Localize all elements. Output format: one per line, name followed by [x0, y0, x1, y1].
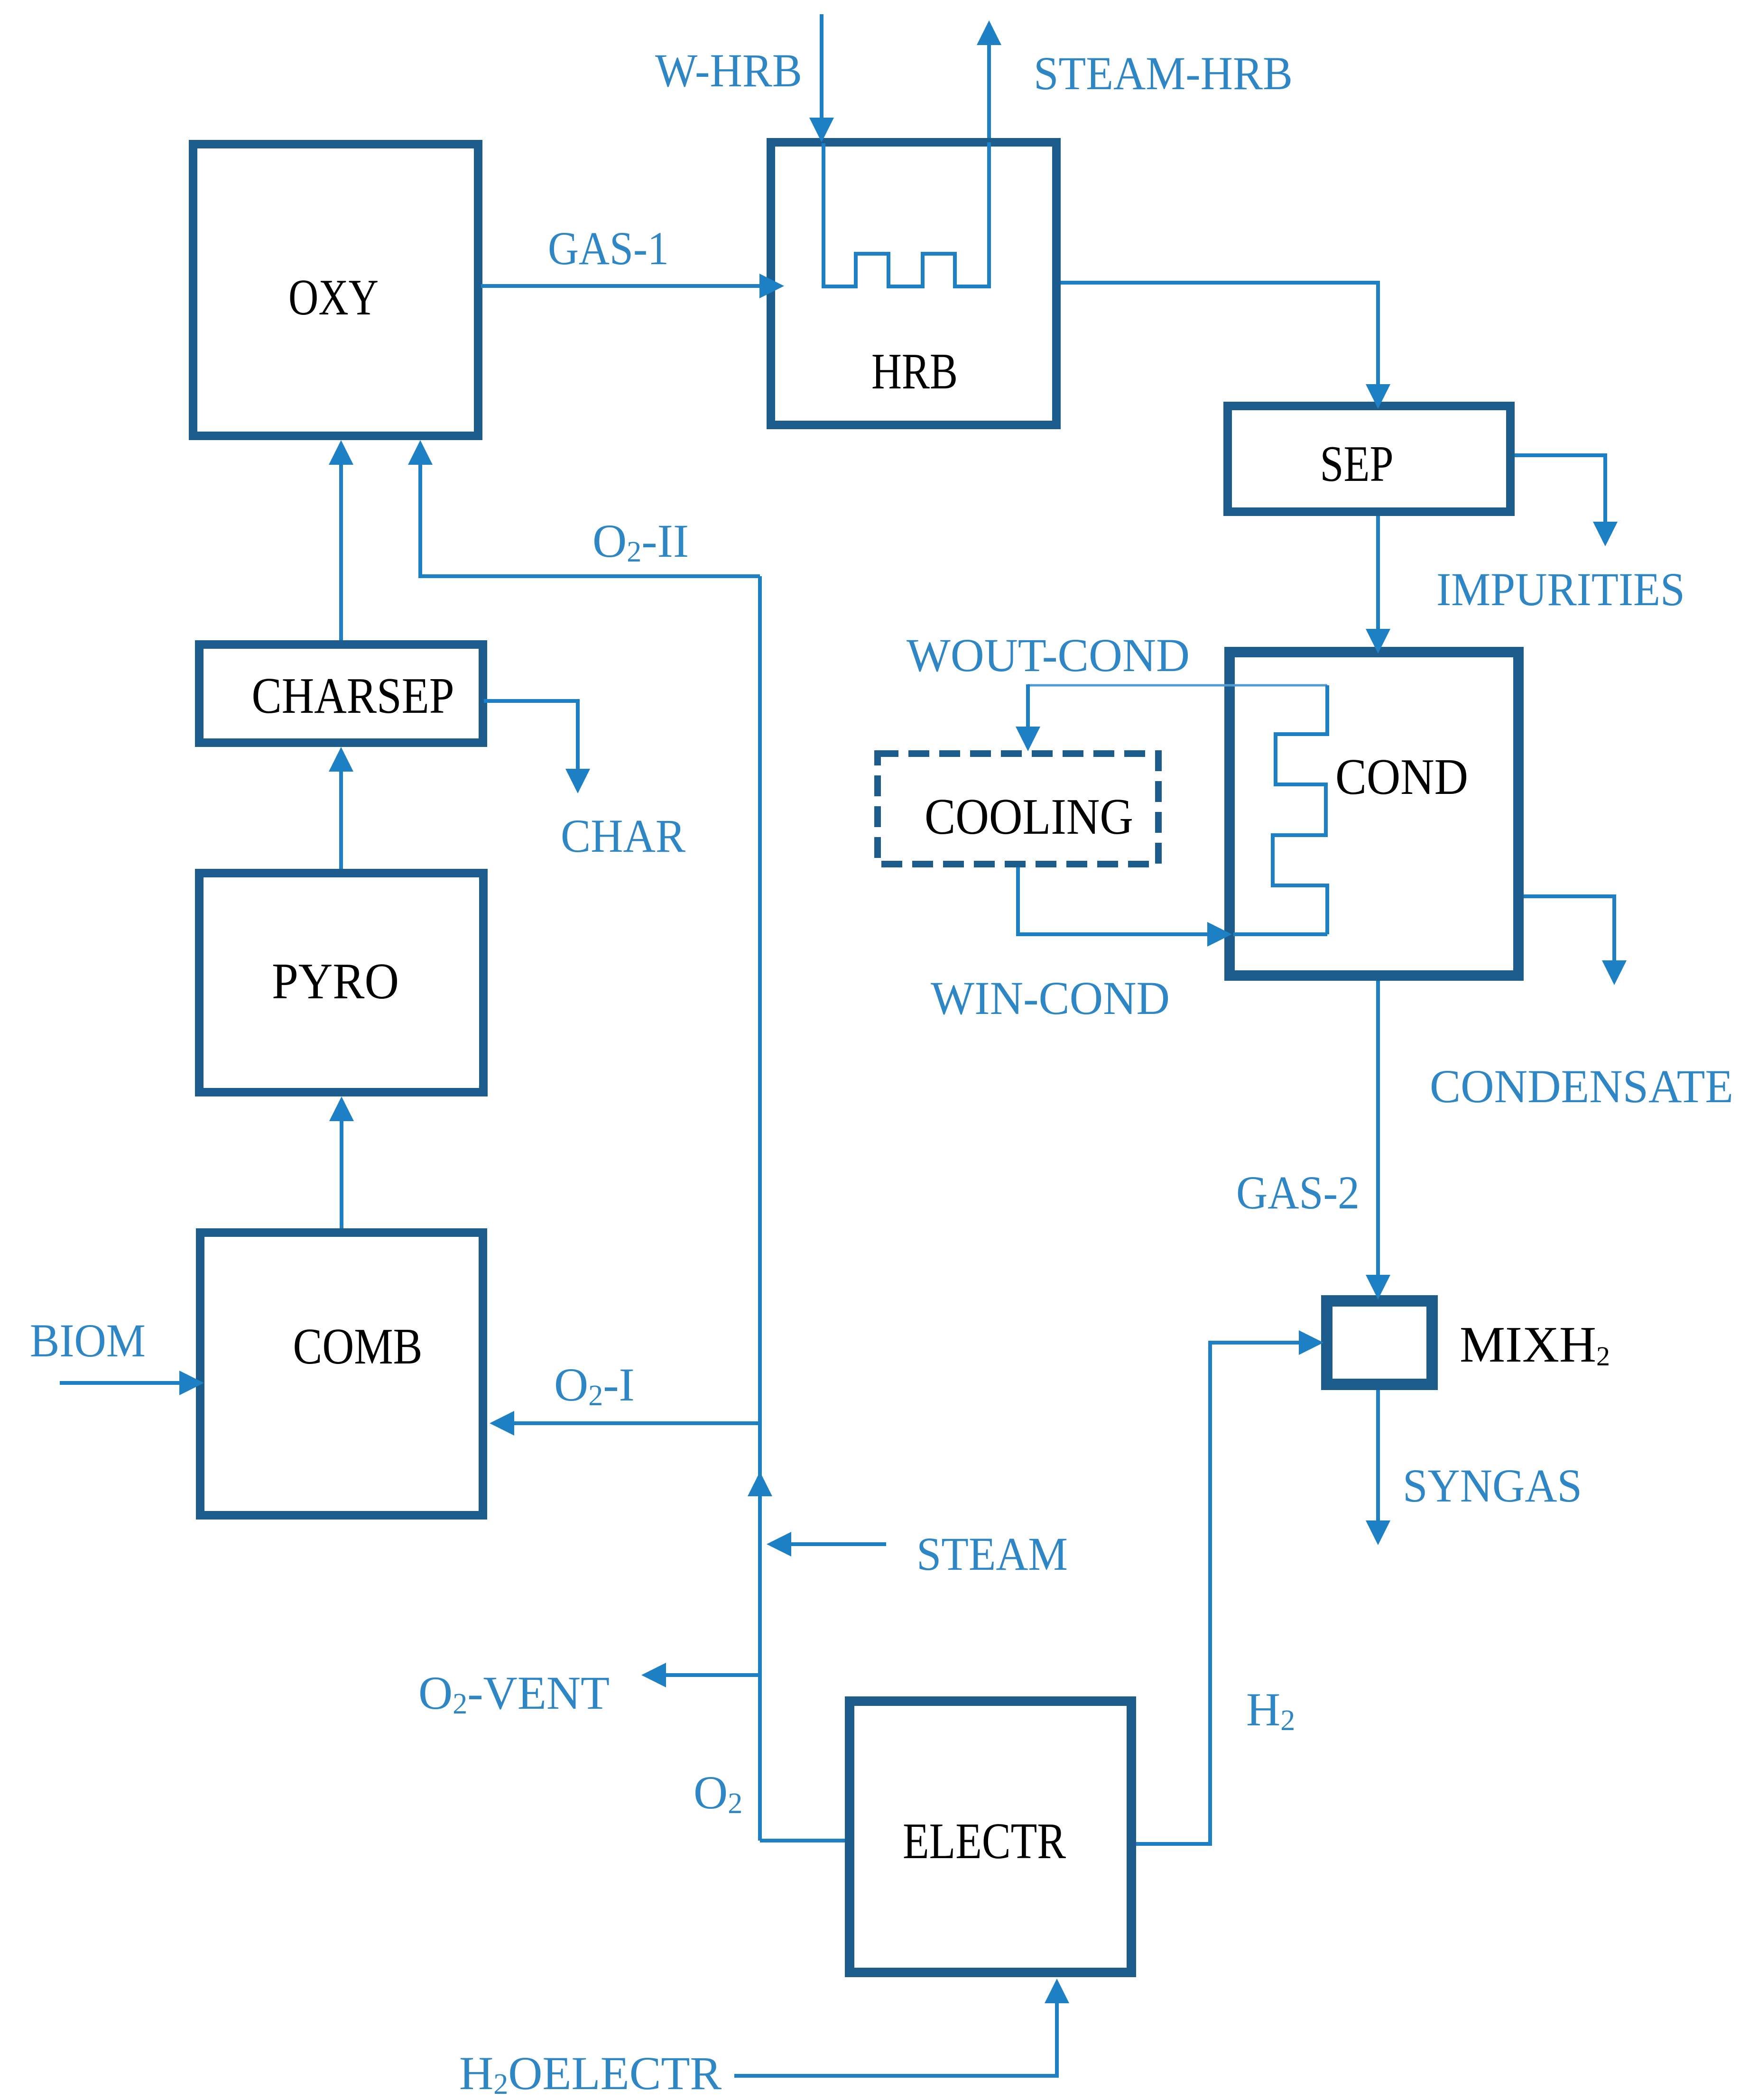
stream GAS-2 wire	[1376, 981, 1380, 1275]
svg-text:CONDENSATE: CONDENSATE	[1430, 1060, 1733, 1113]
stream STEAM wire	[791, 1542, 886, 1546]
stream CHAR wire	[484, 701, 578, 769]
stream HRB to SEP wire	[1061, 283, 1378, 385]
stream O2-II wire	[420, 465, 760, 576]
svg-text:GAS-1: GAS-1	[548, 222, 669, 275]
stream O2-I wire	[513, 1421, 760, 1425]
svg-text:PYRO: PYRO	[272, 953, 399, 1010]
stream H2OELECTR wire	[734, 2003, 1057, 2076]
svg-text:COND: COND	[1335, 749, 1468, 805]
block PYRO	[199, 873, 483, 1092]
svg-text:MIXH2: MIXH2	[1460, 1317, 1610, 1373]
svg-text:SEP: SEP	[1320, 436, 1394, 492]
COND internal coil	[1273, 685, 1327, 934]
svg-text:OXY: OXY	[288, 269, 379, 326]
svg-text:O2-VENT: O2-VENT	[418, 1667, 610, 1720]
stream O2-VENT wire	[666, 1673, 760, 1677]
svg-text:CHAR: CHAR	[561, 810, 685, 862]
svg-text:H2: H2	[1246, 1683, 1295, 1737]
stream H2 wire	[1136, 1343, 1299, 1844]
stream GAS-1 wire	[481, 284, 759, 288]
svg-text:STEAM: STEAM	[916, 1528, 1068, 1580]
stream STEAM-HRB wire	[987, 45, 991, 138]
svg-text:GAS-2: GAS-2	[1236, 1166, 1360, 1219]
COND coil bottom segment	[1233, 932, 1327, 936]
trunk up arrowhead	[748, 1472, 772, 1496]
stream COMB to PYRO wire	[340, 1121, 343, 1228]
svg-text:SYNGAS: SYNGAS	[1403, 1459, 1582, 1512]
svg-text:IMPURITIES: IMPURITIES	[1436, 563, 1685, 616]
stream SYNGAS wire	[1376, 1390, 1380, 1520]
stream CONDENSATE wire	[1524, 896, 1614, 960]
block ELECTR	[850, 1701, 1131, 1972]
svg-text:COMB: COMB	[293, 1318, 423, 1375]
stream WIN-COND wire	[1018, 867, 1207, 934]
block COOLING	[878, 754, 1158, 864]
stream PYRO to CHARSEP wire	[339, 772, 343, 869]
stream CHARSEP to OXY wire	[339, 465, 343, 640]
svg-text:HRB: HRB	[871, 343, 958, 400]
svg-text:O2-II: O2-II	[592, 515, 689, 568]
svg-text:H2OELECTR: H2OELECTR	[459, 2047, 722, 2100]
block OXY	[193, 144, 478, 436]
svg-text:CHARSEP: CHARSEP	[252, 668, 454, 724]
HRB internal coil	[823, 142, 989, 286]
svg-text:WOUT-COND: WOUT-COND	[907, 629, 1190, 682]
svg-text:ELECTR: ELECTR	[903, 1813, 1066, 1870]
svg-text:O2-I: O2-I	[554, 1358, 635, 1412]
svg-text:O2: O2	[694, 1766, 742, 1820]
O2 trunk wire	[758, 576, 762, 1841]
svg-text:STEAM-HRB: STEAM-HRB	[1034, 47, 1293, 100]
block CHARSEP	[199, 645, 483, 743]
block MIXH2	[1327, 1301, 1432, 1384]
stream SEP to IMPURITIES wire	[1515, 455, 1605, 522]
stream SEP to COND wire	[1376, 516, 1380, 630]
stream WOUT-COND wire	[1028, 684, 1327, 687]
stream BIOM wire	[60, 1381, 179, 1385]
svg-text:COOLING: COOLING	[925, 789, 1133, 845]
svg-text:W-HRB: W-HRB	[655, 44, 802, 97]
block COND	[1230, 652, 1518, 976]
O2 link ELECTR wire	[760, 1839, 845, 1842]
block HRB	[771, 142, 1056, 425]
svg-text:BIOM: BIOM	[30, 1314, 146, 1367]
block COMB	[200, 1233, 483, 1515]
stream W-HRB wire	[820, 14, 823, 119]
svg-text:WIN-COND: WIN-COND	[931, 972, 1170, 1024]
block SEP	[1228, 406, 1510, 512]
